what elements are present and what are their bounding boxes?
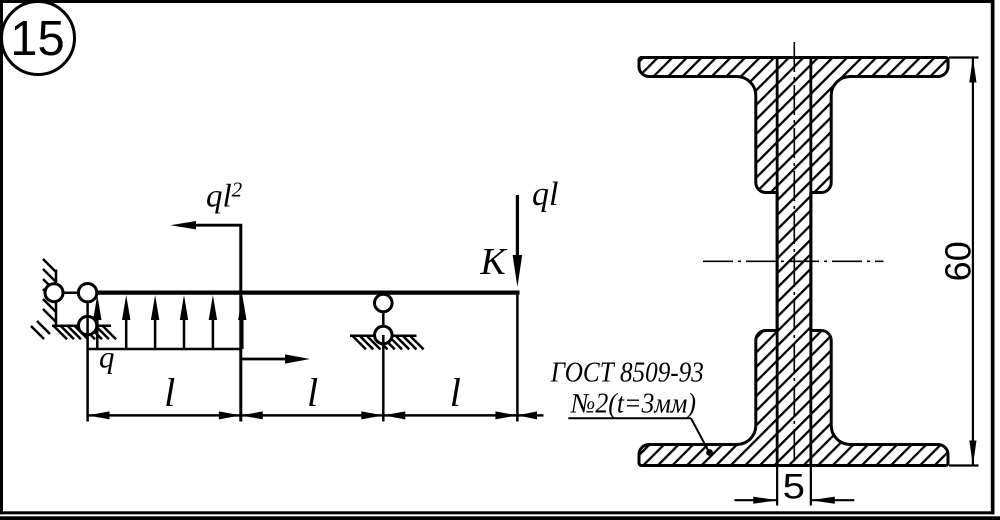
roller lower circle <box>375 326 393 344</box>
plate right edge <box>809 58 812 466</box>
page border bottom line <box>0 511 995 514</box>
svg-text:l: l <box>164 370 175 415</box>
force ql arrowhead <box>513 255 523 287</box>
dim 60: extension lines <box>949 56 979 58</box>
horizontal centerline <box>703 260 884 262</box>
roller upper circle <box>375 294 393 312</box>
page border right <box>991 0 995 514</box>
roller 3 (below) <box>78 316 96 334</box>
svg-text:ql: ql <box>532 176 558 213</box>
floor line of left support <box>52 324 111 327</box>
wall line of left support <box>55 270 58 328</box>
underline <box>568 417 691 419</box>
extension line at beam left end <box>86 302 89 422</box>
leader line <box>691 418 709 452</box>
svg-text:K: K <box>479 241 507 283</box>
extension line at middle support <box>382 335 385 422</box>
moment top arrow (left) <box>194 224 242 227</box>
floor hatch <box>54 326 116 339</box>
dimension line <box>88 414 544 417</box>
wall hatch <box>31 259 56 339</box>
link roller1-roller2 <box>54 291 88 294</box>
problem number badge circle 15 <box>2 2 75 75</box>
dimension arrowheads <box>88 411 537 419</box>
beam <box>97 291 520 295</box>
next row badge sliver <box>24 517 52 520</box>
dim 60 arrows <box>969 58 976 83</box>
page border top <box>0 0 995 3</box>
dim 5: extension lines <box>776 466 778 506</box>
svg-text:№2(t=3мм): №2(t=3мм) <box>570 388 696 419</box>
roller 2 (beam end) <box>78 284 96 302</box>
leader dot <box>706 449 713 456</box>
plate left edge <box>776 58 779 466</box>
dim 60 line <box>972 58 974 466</box>
svg-text:15: 15 <box>10 12 65 66</box>
svg-text:l: l <box>450 370 461 415</box>
roller link <box>382 312 385 326</box>
distributed load q baseline <box>89 348 242 351</box>
extension line at beam right end <box>516 295 519 422</box>
moment ql2 : vertical line <box>239 225 242 421</box>
svg-text:5: 5 <box>783 467 805 506</box>
roller 1 (on wall) <box>45 284 63 302</box>
svg-text:ГОСТ 8509-93: ГОСТ 8509-93 <box>550 356 704 388</box>
force ql at K <box>516 195 519 258</box>
svg-text:q: q <box>99 340 115 375</box>
section shape (4 angles + plate) <box>639 58 948 466</box>
distributed load arrows <box>93 295 246 349</box>
page border left <box>0 0 3 514</box>
vertical centerline <box>793 42 795 472</box>
svg-text:l: l <box>307 370 318 415</box>
moment bottom arrow (right) <box>241 358 288 361</box>
ground hatch <box>353 336 424 349</box>
next row top strip <box>0 516 1000 520</box>
svg-text:60: 60 <box>938 241 979 281</box>
dim 5 line with outside arrows <box>735 499 778 501</box>
middle roller support: ground line <box>350 335 417 338</box>
